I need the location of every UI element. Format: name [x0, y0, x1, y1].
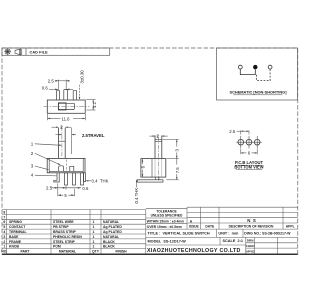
svg-text:2.5: 2.5: [48, 79, 55, 84]
top view centerline: [44, 105, 90, 107]
projection symbol cone: [15, 49, 22, 55]
svg-text:STEEL WIRE: STEEL WIRE: [53, 220, 74, 224]
svg-text:0.4 THK: 0.4 THK: [92, 179, 109, 184]
dim 5 front bottom: [58, 184, 75, 197]
svg-text:PHENOLIC RESIN: PHENOLIC RESIN: [53, 235, 82, 239]
svg-text:N S: N S: [247, 218, 256, 223]
svg-text:DATE: DATE: [205, 224, 215, 228]
CAD FILE header box: [2, 48, 110, 55]
svg-text:1: 1: [93, 225, 95, 229]
top view knob: [58, 103, 66, 110]
svg-text:SCALE 2:1: SCALE 2:1: [223, 239, 243, 243]
svg-text:SCHEMATIC [NON-SHORTING]: SCHEMATIC [NON-SHORTING]: [230, 90, 288, 95]
svg-text:PB STRIP: PB STRIP: [53, 225, 69, 229]
dim 0.4 THK side: [136, 180, 138, 188]
front view inner centerline: [65, 160, 67, 173]
svg-text:PART: PART: [21, 249, 31, 253]
schematic box: [217, 48, 298, 100]
svg-text:NO.: NO.: [1, 249, 7, 253]
svg-text:QTY: QTY: [92, 249, 100, 253]
svg-text:APVD: APVD: [246, 249, 255, 253]
svg-text:POM: POM: [53, 245, 61, 249]
projection symbol wheel: [4, 48, 10, 54]
svg-text:TERMINAL: TERMINAL: [9, 230, 27, 234]
dim 4.1 top view: [86, 100, 95, 110]
top view post B: [64, 90, 68, 100]
svg-text:KNOB: KNOB: [9, 245, 20, 249]
svg-text:Ag PLATED: Ag PLATED: [103, 225, 122, 229]
svg-text:1: 1: [93, 220, 95, 224]
dim 6 side view: [142, 159, 144, 177]
svg-text:2: 2: [3, 240, 5, 244]
svg-text:0.4 THK: 0.4 THK: [134, 188, 139, 204]
svg-text:BLACK: BLACK: [103, 245, 115, 249]
revision area text: [189, 218, 295, 228]
front view contact bump 2: [70, 166, 74, 171]
side view pin: [155, 177, 157, 180]
svg-text:DWG NO.: SS-2B-00D217-W: DWG NO.: SS-2B-00D217-W: [244, 232, 291, 236]
svg-text:CONTACT: CONTACT: [9, 225, 26, 229]
pcb hole 1: [236, 136, 245, 149]
svg-text:DRN: DRN: [247, 239, 254, 243]
svg-text:5: 5: [3, 225, 5, 229]
svg-text:4: 4: [3, 230, 5, 234]
svg-text:BASE: BASE: [9, 235, 19, 239]
schematic solid wire 1-2: [240, 69, 255, 75]
svg-text:STEEL STRIP: STEEL STRIP: [53, 240, 76, 244]
svg-text:ISSUE: ISSUE: [189, 224, 200, 228]
dim 2 side view: [150, 135, 168, 137]
schematic dashed wire 2-3: [257, 69, 271, 80]
parts table text: [1, 210, 127, 253]
dim 2.5 travel: [56, 128, 77, 154]
dim 3±0.30 top view: [79, 85, 81, 100]
svg-text:FINISH: FINISH: [115, 249, 127, 253]
top view post A: [57, 90, 60, 100]
pcb hole 3: [253, 136, 262, 149]
svg-text:1: 1: [93, 235, 95, 239]
svg-text:MATERIAL: MATERIAL: [59, 249, 76, 253]
front view base top line: [49, 170, 83, 172]
svg-text:3: 3: [3, 235, 5, 239]
svg-text:UNIT : mm: UNIT : mm: [218, 232, 239, 236]
svg-text:CHKD: CHKD: [246, 244, 256, 248]
tolerance box text: [147, 210, 184, 230]
schematic terminal 2 common filled: [253, 65, 257, 69]
side view body: [141, 159, 166, 178]
schematic terminal 1: [238, 65, 242, 69]
model row text: [148, 239, 243, 244]
svg-text:2.5: 2.5: [229, 129, 236, 134]
front view pin 3: [81, 173, 84, 185]
dim 3 side view: [163, 139, 179, 179]
dim 2.5 pcb: [237, 130, 249, 134]
svg-text:WITHIN 15mm : ±0.4mm: WITHIN 15mm : ±0.4mm: [147, 219, 184, 223]
dim 0.6 top view: [49, 89, 73, 91]
svg-text:OVER 15mm : ±0.5mm: OVER 15mm : ±0.5mm: [147, 225, 182, 229]
svg-text:Ag PLATED: Ag PLATED: [103, 230, 122, 234]
svg-text:1: 1: [93, 245, 95, 249]
front view contact bump 1: [59, 166, 64, 172]
svg-text:3±0.30: 3±0.30: [79, 70, 84, 84]
front view right tab: [84, 173, 86, 182]
svg-text:1: 1: [93, 230, 95, 234]
svg-text:NATURAL: NATURAL: [103, 220, 119, 224]
svg-text:8: 8: [3, 210, 5, 214]
svg-text:UNLESS SPECIFIED: UNLESS SPECIFIED: [151, 214, 183, 218]
svg-text:TITLE : VERTICAL SLIDE SWITCH: TITLE : VERTICAL SLIDE SWITCH: [148, 232, 210, 236]
svg-text:7.5: 7.5: [175, 167, 180, 174]
top view body: [47, 100, 85, 113]
svg-text:BRASS STRIP: BRASS STRIP: [53, 230, 77, 234]
svg-text:2.5TRAVEL: 2.5TRAVEL: [82, 133, 105, 138]
dim 2 front view: [52, 126, 72, 128]
dim 2.5 top view: [55, 80, 69, 91]
svg-text:NATURAL: NATURAL: [103, 235, 119, 239]
front view stem: [59, 128, 66, 159]
svg-text:0.6: 0.6: [42, 85, 49, 90]
svg-text:DESCRIPTION OF REVISION: DESCRIPTION OF REVISION: [229, 224, 274, 228]
bottom thick border: [2, 253, 298, 255]
svg-text:0.6: 0.6: [82, 186, 89, 191]
svg-text:11.6: 11.6: [62, 116, 71, 121]
title row text: [148, 232, 292, 236]
svg-text:XIAOZHUOTECHNOLOGY CO.LTD: XIAOZHUOTECHNOLOGY CO.LTD: [147, 248, 241, 254]
schematic terminal 3: [268, 65, 272, 69]
dim 7.5 side view: [176, 177, 178, 180]
svg-text:2.5: 2.5: [46, 185, 53, 190]
dim 2.5 front bottom: [51, 186, 81, 190]
front view pin 2: [73, 173, 76, 185]
front view left tab: [54, 173, 59, 182]
front view pin 1: [65, 173, 68, 185]
svg-text:BOTTOM VIEW: BOTTOM VIEW: [234, 165, 263, 170]
svg-text:7: 7: [3, 215, 5, 219]
svg-text:CAD FILE: CAD FILE: [30, 51, 49, 55]
svg-text:MODEL SS-12D17-W: MODEL SS-12D17-W: [148, 240, 187, 244]
svg-text:4.1: 4.1: [92, 101, 97, 108]
top view slot: [58, 103, 74, 109]
side view stem: [155, 135, 162, 158]
side view base plate: [137, 180, 163, 182]
svg-text:SPRING: SPRING: [9, 220, 22, 224]
dim 6 pcb: [241, 149, 257, 154]
svg-text:6: 6: [3, 220, 5, 224]
top view post C: [73, 90, 76, 99]
drawing frame border: [2, 48, 298, 254]
dim 11.6 top view: [48, 114, 86, 120]
front view body: [47, 158, 85, 172]
pcb hole 2: [245, 136, 254, 149]
dim 0.4 THK front: [86, 180, 91, 182]
svg-text:FRAME: FRAME: [9, 240, 22, 244]
svg-text:APPL: APPL: [286, 224, 295, 228]
svg-text:1: 1: [3, 245, 5, 249]
svg-text:BLACK: BLACK: [103, 240, 115, 244]
svg-text:1: 1: [93, 240, 95, 244]
